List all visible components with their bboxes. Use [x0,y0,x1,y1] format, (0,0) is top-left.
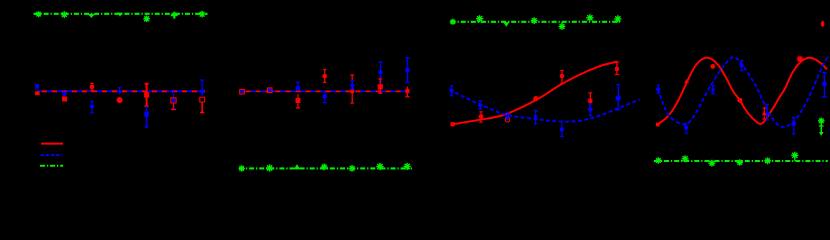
subplot 2 data point pair 4 [322,70,327,103]
subplot 3 blue point 5 [560,123,564,137]
subplot 2: blue dashed zero line [241,90,409,92]
subplot 1 data point pair 1 [35,84,40,95]
subplot 3 blue point 7 [616,85,621,110]
subplot 3 red point 7 [615,62,619,74]
subplot 1 data point pair 4 [117,88,123,104]
subplot 3: green dash-dot reference line [451,21,620,23]
subplot 4 green downward arrow marker (right) [818,118,824,136]
subplot 4 red point 4 [762,108,767,119]
subplot 4 blue point 2 [684,123,688,134]
subplot 2 data point pair 7 [405,58,410,97]
subplot 3 green marker 4 [531,17,538,24]
subplot 1: red dashed zero line (offset) [37,90,205,92]
subplot 1 data point pair 7 [200,80,205,113]
subplot 4 red point 1 [684,79,689,83]
subplot 3 blue point 3 [505,113,510,120]
subplot 2 data point pair 6 [378,62,383,93]
subplot 3 red fit curve [453,62,618,125]
subplot 3 red point 2 [479,112,484,122]
subplot 4 green marker 3 [709,160,716,167]
subplot 1 green star marker 5 [143,16,150,23]
subplot 1 green star marker 6 [171,12,178,19]
subplot 1: blue dashed zero line [37,90,205,92]
subplot 4 green marker 1 [655,157,661,163]
subplot 3 green marker 5 [559,22,566,30]
subplot 1 data point pair 5 [144,84,149,127]
subplot 2 green marker 6 [376,163,383,170]
subplot 1 data point pair 6 [171,90,176,110]
subplot 4 red sine curve [658,58,827,124]
subplot 4 blue point 1 [656,85,660,93]
subplot 3 red point 4 [533,96,538,101]
subplot 3 blue point 4 [533,111,538,124]
subplot 2 data point pair 5 [350,75,354,103]
subplot 2 green marker 1 [239,165,245,171]
legend red solid line [41,143,63,145]
subplot 2 data point 2 (red open + blue square) [267,88,272,93]
subplot 4 blue point 5 [792,118,796,135]
subplot 4 red point 3 [737,98,742,103]
subplot 2 green marker 3 [294,164,300,169]
subplot 3 red point 1 [451,122,455,126]
subplot 4 blue point 3 [711,86,715,94]
subplot 4 green marker 5 [764,157,771,164]
subplot 2: red dashed zero line (offset) [241,90,409,92]
subplot 2 data point 1 (red open + blue square) [240,89,245,94]
subplot 1 green star marker 1 [36,11,42,17]
subplot 1 data point pair 2 [62,91,67,101]
subplot 3 blue point 6 [588,104,592,116]
subplot 3 blue point 1 [449,86,453,96]
subplot 3 red point 6 [588,93,592,109]
subplot 3 green marker 7 [614,15,621,22]
subplot 4 red point 0 (start square) [656,123,660,127]
subplot 4 blue point 4b [765,105,769,121]
subplot 2: green dash-dot reference line [239,167,412,169]
subplot 3 green marker 6 [586,14,593,21]
subplot 4 green marker 2 [682,155,689,162]
subplot 4 blue sine curve [658,57,828,127]
subplot 1 data point pair 3 [90,83,95,113]
subplot 2 green marker 5 [349,165,356,172]
subplot 4 green marker 4 [737,159,743,165]
subplot 1 green star marker 4 [117,13,122,17]
subplot 3 blue point 2 [478,101,482,109]
subplot 4 blue point 4 [739,61,743,71]
subplot 3 green marker 2 [476,15,483,22]
subplot 4 green marker 6 [791,152,798,161]
legend green dash-dot line [40,165,63,167]
subplot 2 green marker 2 [266,164,273,171]
subplot 4 red isolated point top-right [821,21,825,27]
subplot 4 red point 5 (star) [797,56,804,63]
subplot 4 red point 2 [710,64,715,69]
subplot 3 green marker 3 [503,22,509,27]
subplot 1: green dash-dot reference line [34,13,208,15]
subplot 4 blue point 6 (with error bar) [822,72,827,97]
subplot 2 green marker 4 [321,164,328,171]
subplot 4: green dash-dot reference line [654,160,828,162]
subplot 1 green star marker 7 [199,11,206,18]
subplot 3 red point 5 [560,71,565,84]
subplot 1 green star marker 3 [88,14,95,18]
subplot 2 green marker 7 [404,163,411,170]
subplot 3 green marker 1 [450,19,456,25]
subplot 3 blue fit curve [450,90,640,122]
subplot 1 green star marker 2 [61,11,68,18]
subplot 3 red point 3 (open circle) [505,117,510,122]
legend blue dashed line [41,154,63,156]
subplot 2 data point pair 3 [296,82,301,108]
